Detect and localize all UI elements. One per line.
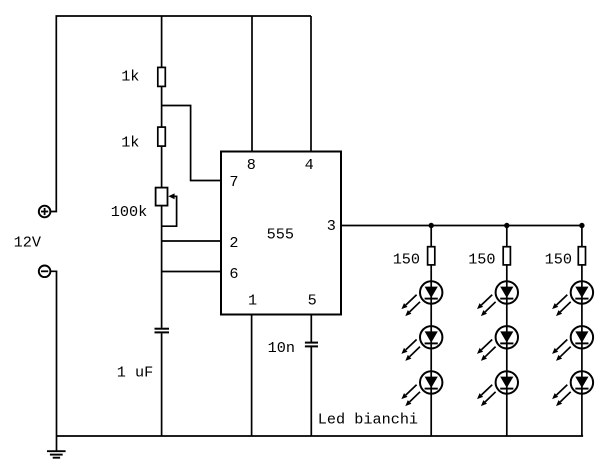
LED D2	[401, 326, 442, 361]
resistor R4 150	[428, 247, 435, 265]
svg-text:3: 3	[327, 217, 336, 235]
svg-text:2: 2	[229, 234, 238, 252]
svg-text:12V: 12V	[14, 233, 42, 251]
svg-text:10n: 10n	[268, 339, 295, 357]
ground	[47, 436, 66, 458]
svg-text:1k: 1k	[121, 68, 139, 86]
wire LED column 1	[430, 226, 432, 437]
svg-text:1k: 1k	[121, 134, 139, 152]
LED D3	[401, 371, 442, 406]
resistor R2 1k	[158, 127, 166, 146]
wire R2 to potentiometer	[161, 146, 163, 188]
svg-text:100k: 100k	[111, 203, 147, 221]
svg-text:5: 5	[308, 291, 317, 309]
wire R1 to R2	[161, 86, 163, 127]
wire V+ to R1	[161, 16, 163, 67]
wire pin 8 to V+	[251, 16, 253, 152]
potentiometer R3 100k	[156, 188, 177, 227]
svg-text:150: 150	[393, 251, 420, 269]
wire V+ rail from battery + to top	[50, 16, 311, 212]
svg-text:4: 4	[305, 156, 314, 174]
wire pin 6 net	[162, 271, 221, 273]
battery terminal +	[39, 206, 51, 218]
resistor R6 150	[578, 247, 585, 265]
LED D4	[477, 281, 518, 316]
wire LED column 3	[581, 226, 583, 437]
wire ground rail (bottom)	[57, 435, 584, 437]
capacitor C1 1uF	[155, 329, 170, 333]
junction node A on pin 3 rail	[429, 223, 434, 228]
resistor R1 1k	[158, 67, 166, 86]
wire LED column 2	[506, 226, 508, 437]
wire C2 to ground rail	[310, 347, 312, 436]
LED D9	[552, 371, 593, 406]
svg-text:7: 7	[229, 173, 238, 191]
resistor R5 150	[503, 247, 510, 265]
svg-text:1 uF: 1 uF	[117, 363, 153, 381]
svg-text:8: 8	[247, 156, 256, 174]
capacitor C2 10n	[305, 343, 318, 347]
wire pin 7 net (junction R1/R2 to pin 7)	[162, 106, 221, 181]
LED D8	[552, 326, 593, 361]
svg-text:1: 1	[248, 291, 257, 309]
wire pin 1 to ground rail	[251, 315, 253, 437]
wire pin 2 net	[162, 240, 221, 242]
wire battery - to ground rail	[50, 271, 56, 436]
junction node C on pin 3 rail	[579, 223, 584, 228]
junction node B on pin 3 rail	[504, 223, 509, 228]
wire pin 5 to C2	[310, 315, 312, 343]
svg-text:555: 555	[267, 226, 294, 244]
wire pin 3 output rail	[341, 225, 582, 227]
svg-text:150: 150	[468, 251, 495, 269]
wire pin 4 to V+	[310, 16, 312, 152]
LED D5	[477, 326, 518, 361]
wire C1 to ground rail	[161, 333, 163, 436]
IC U1 555	[221, 152, 341, 315]
svg-text:Led bianchi: Led bianchi	[318, 410, 418, 428]
LED D7	[552, 281, 593, 316]
svg-text:6: 6	[229, 265, 238, 283]
svg-text:150: 150	[545, 251, 572, 269]
LED D1	[401, 281, 442, 316]
wire pot to C1 / pins 2,6	[161, 206, 163, 328]
LED D6	[477, 371, 518, 406]
battery terminal -	[39, 266, 51, 278]
